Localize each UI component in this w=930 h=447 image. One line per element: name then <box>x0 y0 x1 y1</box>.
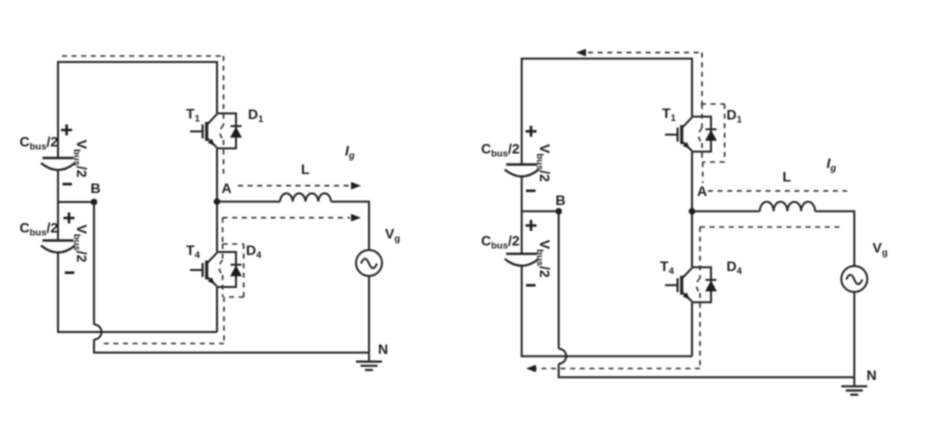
dashed box around D4: bottom (left) <box>224 296 244 298</box>
plus sign top cap (left) <box>61 124 72 135</box>
wire: phase leg between T1 and T4 (right) <box>691 152 693 268</box>
dashed path: top run (right) <box>588 52 702 54</box>
svg-text:T1: T1 <box>662 105 677 124</box>
svg-text:Cbus/2: Cbus/2 <box>20 134 59 153</box>
capacitor C_bus/2 bottom (right) <box>505 254 539 266</box>
svg-text:A: A <box>222 180 232 196</box>
arrow bottom dashed (right, pointing left) <box>526 365 536 373</box>
arrow top dashed (right, pointing left) <box>576 49 586 57</box>
plus sign bottom cap (left) <box>64 212 75 223</box>
transistor T4 with antiparallel diode D4 (left) <box>190 252 242 287</box>
dashed path: lower run to grid (left) <box>223 217 350 219</box>
svg-text:D4: D4 <box>727 258 743 277</box>
svg-text:Cbus/2: Cbus/2 <box>481 141 520 160</box>
svg-text:N: N <box>867 367 877 383</box>
inductor L (left) <box>280 193 331 201</box>
wire: inductor to source (left) <box>331 202 369 251</box>
plus sign top cap (right) <box>526 126 537 137</box>
dashed path: bottom run to node B branch (left) <box>100 343 224 345</box>
wire: source to ground junction (right) <box>853 292 855 378</box>
capacitor C_bus/2 bottom (left) <box>41 241 75 253</box>
svg-text:Vbus/2: Vbus/2 <box>71 225 90 263</box>
minus sign bottom cap (left) <box>65 271 75 274</box>
wire: source to ground junction (left) <box>368 276 370 353</box>
inductor L (right) <box>760 202 815 212</box>
minus sign top cap (left) <box>63 183 73 186</box>
wire: rail below caps to bottom rail (right) <box>522 266 692 356</box>
node A (right) <box>689 208 696 215</box>
dashed path: T1 to node A level (left) <box>223 140 225 178</box>
svg-text:Cbus/2: Cbus/2 <box>20 220 59 239</box>
svg-text:Cbus/2: Cbus/2 <box>481 233 520 252</box>
svg-text:Vg: Vg <box>385 226 400 245</box>
arrow lower dashed (left) <box>351 214 361 222</box>
dashed box around D4: right (left) <box>243 244 245 297</box>
dashed path: A to grid upper run (right) <box>708 190 847 192</box>
wire: rail between caps (right) <box>521 177 523 254</box>
node B (right) <box>555 208 562 215</box>
dashed path: down to D4 box (left) <box>222 218 224 244</box>
wire: T4 emitter to bottom rail (right) <box>691 302 693 356</box>
svg-text:B: B <box>556 192 566 208</box>
wire: B branch down with hop over bottom rail (left) <box>93 202 95 325</box>
svg-text:A: A <box>697 183 707 199</box>
svg-text:Vbus/2: Vbus/2 <box>71 140 90 178</box>
dashed path: T4 to bottom run (right) <box>699 293 701 369</box>
svg-text:T1: T1 <box>186 106 201 125</box>
svg-text:D1: D1 <box>727 107 743 126</box>
dashed box around D4: left with hook (left) <box>222 244 224 260</box>
svg-text:Vbus/2: Vbus/2 <box>534 240 553 278</box>
svg-text:T4: T4 <box>186 242 201 261</box>
svg-text:Vg: Vg <box>873 240 888 259</box>
dashed box around D4: top (left) <box>223 243 244 245</box>
dashed path: A to grid upper run (left) <box>238 185 350 187</box>
ground (left) <box>356 353 382 370</box>
svg-text:T4: T4 <box>660 258 675 277</box>
AC source Vg (right) <box>841 266 867 292</box>
dashed box around D1: top (right) <box>701 103 725 105</box>
wire: node A to inductor (right) <box>692 210 760 212</box>
wire: top rail right circuit <box>522 59 692 165</box>
wire: T4 emitter to bottom rail (left) <box>216 287 218 332</box>
wire: B tee (left) <box>58 201 94 203</box>
wire: top rail left circuit <box>58 62 217 158</box>
dashed path: bottom run (right) <box>536 368 700 370</box>
capacitor C_bus/2 top (right) <box>505 165 539 177</box>
AC source Vg (left) <box>356 250 382 276</box>
wire: B branch down with hop over bottom rail (right) <box>558 211 560 348</box>
svg-text:Vbus/2: Vbus/2 <box>534 144 553 182</box>
dashed path: D1 box to node A level (right) <box>702 162 704 183</box>
wire: B tee (right) <box>522 210 559 212</box>
minus sign top cap (right) <box>526 190 536 193</box>
dashed box around D1: left with hook (right) <box>701 104 703 128</box>
svg-text:L: L <box>783 169 792 185</box>
wire: phase leg between T1 and T4 (left) <box>216 148 218 252</box>
capacitor C_bus/2 top (left) <box>41 158 75 170</box>
dashed path: down through T4 (right) <box>699 227 701 278</box>
node B (left) <box>91 199 98 206</box>
dashed path: lower run (right) <box>700 226 844 228</box>
dashed box around D1: bottom (right) <box>703 161 725 163</box>
svg-text:D4: D4 <box>246 242 262 261</box>
arrow upper dashed (left) <box>351 182 361 190</box>
svg-text:Ig: Ig <box>827 155 837 174</box>
wire: rail below caps to bottom rail (left) <box>58 253 217 333</box>
transistor T1 with antiparallel diode D1 (left) <box>190 113 242 148</box>
svg-text:B: B <box>91 180 101 196</box>
dashed path: down right side of T1 (left) <box>223 56 225 125</box>
node A (left) <box>214 198 221 205</box>
dashed path: top run (left) <box>62 55 224 57</box>
dashed path: D4 box down to bottom run (left) <box>223 297 225 344</box>
svg-text:N: N <box>378 341 388 357</box>
svg-text:Ig: Ig <box>345 143 355 162</box>
ground (right) <box>841 377 867 394</box>
dashed path: down to D1 box (right) <box>701 53 703 104</box>
wire: node A to inductor (left) <box>217 201 280 203</box>
dashed hook through T1 (left) <box>220 125 224 140</box>
wire: inductor to source (right) <box>815 211 854 266</box>
transistor T1 with antiparallel diode D1 (right) <box>665 117 717 152</box>
dashed hook through T4 (right) <box>697 278 701 293</box>
transistor T4 with antiparallel diode D4 (right) <box>665 267 717 302</box>
plus sign bottom cap (right) <box>526 220 537 231</box>
svg-text:D1: D1 <box>248 106 264 125</box>
svg-text:L: L <box>301 161 310 177</box>
wire: rail between caps (left) <box>57 170 59 241</box>
dashed box around D1: right (right) <box>724 104 726 162</box>
minus sign bottom cap (right) <box>526 284 536 287</box>
